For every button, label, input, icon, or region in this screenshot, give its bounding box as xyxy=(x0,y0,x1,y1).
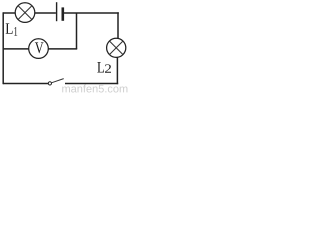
label L1 xyxy=(6,23,18,35)
watermark manfen5.com xyxy=(62,84,127,92)
wire: right rail down to lamp L2 xyxy=(117,12,119,39)
voltmeter V symbol xyxy=(35,42,44,53)
wire: battery to top-right corner xyxy=(64,12,119,14)
wire: switch to bottom-left corner xyxy=(3,83,48,85)
wire: left rail xyxy=(2,12,4,84)
battery short plate (-) xyxy=(61,7,64,20)
switch S pivot xyxy=(48,82,51,85)
battery long plate (+) xyxy=(56,2,58,21)
voltmeter V meter xyxy=(29,39,49,59)
wire: lamp L2 to bottom-right corner xyxy=(116,57,118,84)
label L2 xyxy=(97,62,111,73)
lamp L1 xyxy=(15,3,35,23)
lamp L2 xyxy=(107,38,126,57)
wire top-left: corner to lamp L1 xyxy=(3,12,15,14)
wire: left rail to voltmeter xyxy=(3,48,29,50)
wire: bottom-right corner to switch xyxy=(65,83,118,85)
wire: voltmeter to riser xyxy=(48,48,77,50)
wire: riser from voltmeter branch to top wire xyxy=(76,13,78,49)
switch S blade xyxy=(52,79,64,83)
wire: lamp L1 to battery xyxy=(35,12,56,14)
